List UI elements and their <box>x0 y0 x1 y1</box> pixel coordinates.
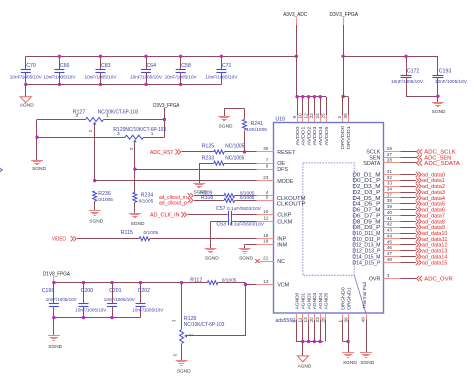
svg-text:C201: C201 <box>109 288 122 294</box>
svg-text:VIDEO: VIDEO <box>52 236 67 242</box>
svg-text:DRGND0: DRGND0 <box>341 287 346 310</box>
svg-text:10nF/1005/10V: 10nF/1005/10V <box>391 79 424 85</box>
svg-text:AGND3: AGND3 <box>312 292 317 309</box>
svg-text:20: 20 <box>309 317 314 323</box>
svg-text:27: 27 <box>387 152 393 157</box>
svg-text:CLKOUTP: CLKOUTP <box>277 201 306 207</box>
svg-text:11: 11 <box>297 317 302 322</box>
svg-text:13: 13 <box>263 279 269 284</box>
svg-text:42: 42 <box>387 222 393 227</box>
svg-text:RESET: RESET <box>277 150 296 156</box>
svg-text:R125: R125 <box>202 143 215 149</box>
svg-text:AVDD1: AVDD1 <box>301 126 306 146</box>
svg-text:ADC_OVR: ADC_OVR <box>424 276 453 282</box>
svg-text:3: 3 <box>173 354 178 357</box>
svg-text:10nF/1005/10V: 10nF/1005/10V <box>104 297 136 303</box>
svg-text:R236: R236 <box>98 191 111 197</box>
svg-text:C199: C199 <box>42 288 55 294</box>
svg-text:VCM: VCM <box>277 282 289 288</box>
svg-text:AD_CLK_IN: AD_CLK_IN <box>150 212 180 218</box>
svg-text:7: 7 <box>266 158 269 163</box>
svg-text:C58: C58 <box>181 63 191 69</box>
svg-text:10nF/1005/10V: 10nF/1005/10V <box>43 74 76 80</box>
svg-text:36: 36 <box>343 317 348 323</box>
svg-text:21: 21 <box>263 255 269 260</box>
svg-text:25: 25 <box>321 113 326 119</box>
svg-text:NC: NC <box>277 259 285 265</box>
svg-text:AGND0: AGND0 <box>295 292 300 309</box>
svg-text:DFS: DFS <box>277 167 288 173</box>
svg-text:1: 1 <box>337 320 342 323</box>
svg-text:AVDD2: AVDD2 <box>306 126 311 146</box>
svg-text:23: 23 <box>263 175 269 180</box>
svg-text:31: 31 <box>387 169 393 174</box>
svg-text:NC/10K/CT-6P-103: NC/10K/CT-6P-103 <box>126 127 167 133</box>
svg-text:R128: R128 <box>184 316 197 322</box>
svg-text:19: 19 <box>263 239 269 244</box>
svg-text:NC/10K/CT-6P-103: NC/10K/CT-6P-103 <box>184 322 225 328</box>
svg-text:NC/1005: NC/1005 <box>225 143 244 149</box>
svg-text:CLKP: CLKP <box>277 213 291 219</box>
svg-text:D14_D15_P: D14_D15_P <box>352 260 380 266</box>
svg-text:41: 41 <box>387 216 393 221</box>
svg-text:NC/10K/CT-6P-103: NC/10K/CT-6P-103 <box>98 109 139 115</box>
svg-text:1: 1 <box>151 131 154 136</box>
svg-text:Thermal Pad: Thermal Pad <box>362 281 367 308</box>
svg-text:R234: R234 <box>141 192 154 198</box>
svg-text:32: 32 <box>387 175 393 180</box>
svg-text:C202: C202 <box>138 288 151 294</box>
svg-text:5: 5 <box>266 195 269 200</box>
svg-text:R112: R112 <box>190 277 202 283</box>
svg-text:40: 40 <box>387 210 393 215</box>
svg-text:INM: INM <box>277 242 287 248</box>
svg-text:10nF/1005/10V: 10nF/1005/10V <box>75 308 107 314</box>
svg-text:SDATA: SDATA <box>363 161 381 167</box>
svg-text:U19: U19 <box>275 117 285 123</box>
svg-text:C57: C57 <box>216 206 226 212</box>
svg-text:10nF/1005/10V: 10nF/1005/10V <box>205 74 238 80</box>
svg-text:0.1uF/0603/10V: 0.1uF/0603/10V <box>230 222 265 228</box>
svg-text:AGND2: AGND2 <box>306 292 311 309</box>
svg-text:22: 22 <box>309 113 314 119</box>
svg-text:AGND1: AGND1 <box>301 292 306 309</box>
svg-text:AVDD3: AVDD3 <box>312 126 317 146</box>
svg-text:45: 45 <box>387 239 393 244</box>
svg-text:35: 35 <box>343 113 348 119</box>
svg-text:10nF/1005/10V: 10nF/1005/10V <box>85 74 118 80</box>
svg-text:29: 29 <box>387 146 393 151</box>
svg-text:C172: C172 <box>407 68 420 74</box>
svg-text:26: 26 <box>321 317 326 323</box>
svg-text:C193: C193 <box>439 68 452 74</box>
svg-text:D3V3_FPGA: D3V3_FPGA <box>330 12 359 18</box>
svg-text:AGND4: AGND4 <box>318 292 323 309</box>
svg-text:13: 13 <box>303 317 308 323</box>
svg-text:3: 3 <box>76 113 79 118</box>
svg-text:SGND: SGND <box>239 256 253 262</box>
svg-text:37: 37 <box>387 192 393 197</box>
svg-text:SGND: SGND <box>177 368 191 374</box>
svg-text:47: 47 <box>387 251 393 256</box>
svg-text:12: 12 <box>303 113 308 119</box>
svg-text:SGND: SGND <box>343 360 357 366</box>
svg-text:AGND: AGND <box>20 103 34 109</box>
svg-text:SGND: SGND <box>48 344 62 350</box>
svg-text:AGND5: AGND5 <box>324 292 329 309</box>
svg-text:2: 2 <box>188 334 193 337</box>
svg-text:49: 49 <box>361 317 366 323</box>
svg-text:DRGND1: DRGND1 <box>347 287 352 310</box>
svg-text:C64: C64 <box>147 63 157 69</box>
svg-text:11: 11 <box>264 216 269 221</box>
svg-text:30: 30 <box>263 146 269 151</box>
svg-text:3: 3 <box>117 131 120 136</box>
svg-text:1: 1 <box>171 320 176 323</box>
svg-text:A3V3_ADC: A3V3_ADC <box>283 12 307 18</box>
svg-text:2: 2 <box>129 148 134 151</box>
svg-text:34: 34 <box>387 187 393 192</box>
svg-text:24: 24 <box>315 113 320 119</box>
svg-text:R108: R108 <box>201 195 214 201</box>
svg-text:10: 10 <box>263 209 269 214</box>
svg-text:10K/1005: 10K/1005 <box>246 127 267 133</box>
svg-text:OVR: OVR <box>369 276 381 282</box>
svg-text:SGND: SGND <box>432 109 446 115</box>
svg-text:DRVDD1: DRVDD1 <box>346 125 351 149</box>
svg-text:10nF/1005/10V: 10nF/1005/10V <box>10 74 43 80</box>
svg-text:48: 48 <box>387 257 393 262</box>
svg-text:33: 33 <box>387 181 393 186</box>
svg-text:0/1005: 0/1005 <box>144 230 159 236</box>
svg-text:46: 46 <box>387 245 393 250</box>
svg-text:2: 2 <box>88 130 93 133</box>
svg-text:DRVDD0: DRVDD0 <box>340 125 345 149</box>
svg-text:SGND: SGND <box>205 256 219 262</box>
svg-text:CLKM: CLKM <box>277 219 292 225</box>
svg-text:AVDD0: AVDD0 <box>295 126 300 146</box>
svg-text:3: 3 <box>387 273 390 278</box>
svg-text:C53: C53 <box>216 222 226 228</box>
svg-text:ADC_RST: ADC_RST <box>150 150 174 156</box>
svg-text:0/1005: 0/1005 <box>240 195 255 201</box>
svg-text:10nF/1005/10V: 10nF/1005/10V <box>46 297 78 303</box>
svg-text:0/1005: 0/1005 <box>98 197 113 203</box>
svg-text:ad_clkout_p: ad_clkout_p <box>159 200 187 206</box>
svg-text:NC/1005: NC/1005 <box>225 155 244 161</box>
svg-text:C70: C70 <box>26 63 36 69</box>
svg-text:AVDD5: AVDD5 <box>324 126 329 146</box>
svg-text:C71: C71 <box>222 63 232 69</box>
svg-text:C83: C83 <box>101 63 111 69</box>
svg-text:2: 2 <box>337 116 342 119</box>
svg-text:ad_data15: ad_data15 <box>422 260 448 266</box>
svg-text:28: 28 <box>387 158 393 163</box>
svg-text:10nF/1005/10V: 10nF/1005/10V <box>165 74 198 80</box>
svg-text:SGND: SGND <box>360 360 374 366</box>
svg-text:C66: C66 <box>60 63 70 69</box>
svg-text:6: 6 <box>266 163 269 168</box>
svg-text:0.1uF/0603/10V: 0.1uF/0603/10V <box>227 206 262 212</box>
svg-text:C200: C200 <box>81 288 94 294</box>
svg-text:R241: R241 <box>251 121 264 127</box>
svg-text:AGND: AGND <box>297 364 311 370</box>
svg-text:SGND: SGND <box>219 124 233 130</box>
svg-text:8: 8 <box>292 320 297 323</box>
svg-text:23: 23 <box>315 317 320 323</box>
svg-text:43: 43 <box>387 228 393 233</box>
svg-text:0/1005: 0/1005 <box>222 277 237 283</box>
svg-text:18: 18 <box>263 233 269 238</box>
svg-text:39: 39 <box>387 204 393 209</box>
svg-text:9: 9 <box>292 116 297 119</box>
svg-text:D1V8_FPGA: D1V8_FPGA <box>43 271 71 277</box>
svg-text:0/1005: 0/1005 <box>139 198 154 204</box>
svg-text:R233: R233 <box>202 155 215 161</box>
svg-text:AVDD4: AVDD4 <box>318 126 323 146</box>
svg-text:10: 10 <box>298 113 303 119</box>
svg-text:10nF/1005/10V: 10nF/1005/10V <box>130 74 163 80</box>
svg-text:SGND: SGND <box>32 166 46 172</box>
svg-text:38: 38 <box>387 198 393 203</box>
svg-text:SGND: SGND <box>131 221 145 227</box>
svg-text:D3V3_FPGA: D3V3_FPGA <box>153 103 180 109</box>
svg-text:R115: R115 <box>121 230 133 236</box>
svg-text:MODE: MODE <box>277 179 294 185</box>
svg-text:SGND: SGND <box>89 219 103 225</box>
svg-text:10nF/1005/10V: 10nF/1005/10V <box>435 79 468 85</box>
svg-text:44: 44 <box>387 234 393 239</box>
svg-text:10nF/1005/10V: 10nF/1005/10V <box>132 308 164 314</box>
svg-text:ADC_SDATA: ADC_SDATA <box>424 161 460 167</box>
